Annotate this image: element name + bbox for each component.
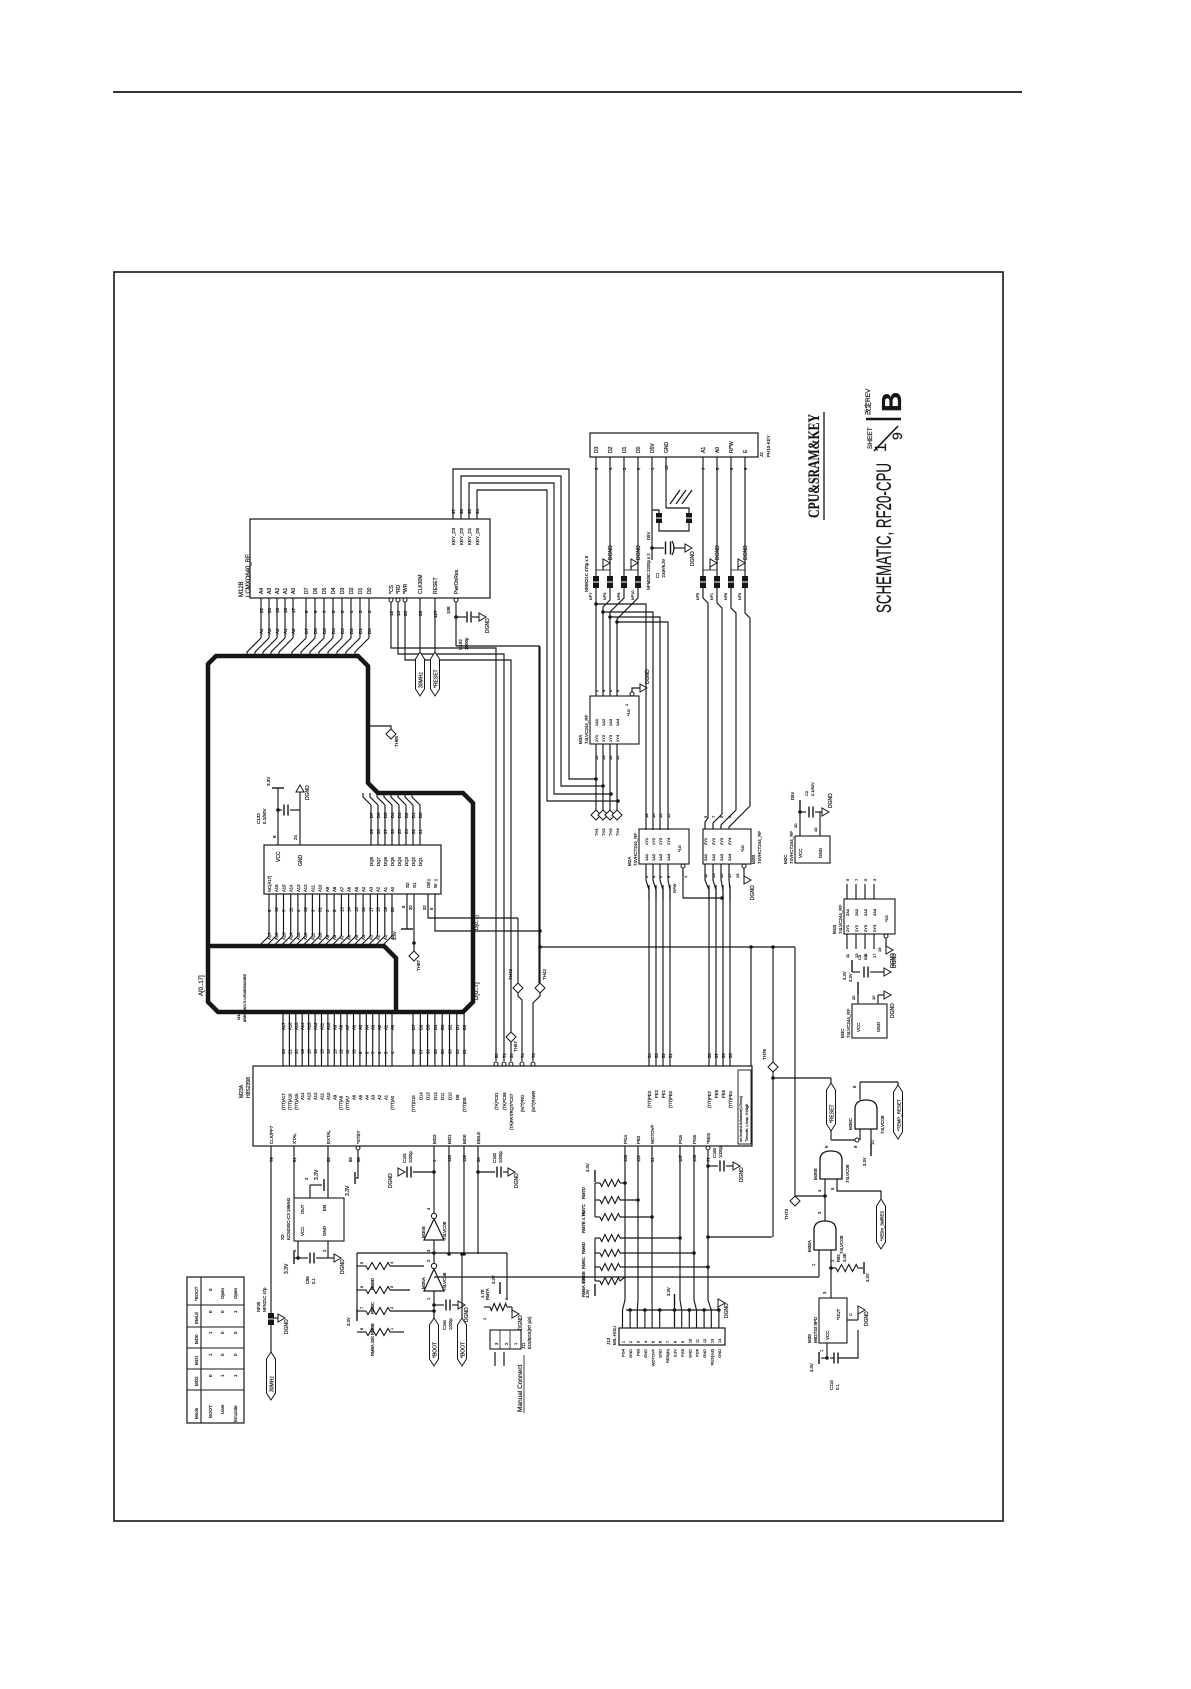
svg-text:DGND: DGND (514, 1173, 520, 1188)
svg-text:13: 13 (332, 1049, 337, 1054)
svg-text:A12: A12 (313, 1022, 318, 1030)
net flag XE5m_SelRES (877, 1199, 886, 1249)
svg-text:7: 7 (360, 1307, 364, 1309)
svg-text:CLK/PF7: CLK/PF7 (269, 1125, 274, 1144)
svg-text:M5M5V208AKV-70 / uPD44B000AGU8: M5M5V208AKV-70 / uPD44B000AGU8B55 (243, 974, 247, 1022)
svg-text:A13: A13 (296, 884, 301, 892)
svg-text:1A1: 1A1 (594, 718, 599, 726)
svg-text:19: 19 (877, 947, 882, 952)
svg-text:DGND: DGND (890, 953, 896, 968)
IC M2B 74VHCT244_RF (703, 829, 751, 864)
svg-text:14: 14 (326, 1049, 331, 1054)
svg-text:1: 1 (873, 443, 890, 452)
svg-text:A9: A9 (325, 886, 330, 892)
svg-text:D2: D2 (349, 628, 354, 634)
page top rule (113, 91, 1022, 93)
svg-text:14: 14 (658, 813, 663, 818)
svg-text:58: 58 (418, 610, 423, 616)
svg-text:A14: A14 (289, 932, 294, 940)
svg-text:11: 11 (345, 1049, 350, 1054)
svg-text:M36A: M36A (807, 1240, 812, 1252)
svg-text:3.3V: 3.3V (666, 1287, 671, 1296)
CPU chip-select pins (494, 1062, 498, 1066)
wires PG4 P83 WDTOVF PG5 PG6 RES down to J13 (623, 1146, 626, 1328)
svg-text:A4: A4 (361, 934, 366, 940)
svg-text:(T/T)PE3: (T/T)PE3 (647, 1090, 652, 1108)
svg-text:2Y1: 2Y1 (703, 837, 708, 845)
M36C inputs (830, 1131, 832, 1140)
svg-text:DGND: DGND (305, 785, 311, 800)
svg-text:27: 27 (383, 829, 388, 834)
svg-text:KC5030C-C3 19MHz: KC5030C-C3 19MHz (286, 1197, 291, 1240)
svg-text:20: 20 (294, 1049, 299, 1054)
svg-text:13: 13 (711, 1339, 715, 1343)
svg-text:D2: D2 (608, 446, 614, 453)
svg-text:KEY_D3: KEY_D3 (451, 527, 456, 545)
svg-text:TH85: TH85 (394, 735, 399, 747)
svg-text:D3: D3 (397, 812, 402, 818)
svg-text:6: 6 (360, 1286, 364, 1288)
svg-text:M62733 8PD: M62733 8PD (813, 1316, 818, 1343)
svg-text:A4: A4 (259, 628, 264, 634)
resistor pack right group NF5 NF1 NF6 NF3 (700, 576, 706, 588)
svg-text:M10: M10 (236, 1011, 241, 1020)
svg-text:PG5: PG5 (680, 1348, 685, 1357)
svg-text:A3: A3 (267, 588, 273, 594)
wire *WR to CPU CS7 via TH57 (405, 602, 511, 1032)
svg-text:20: 20 (851, 995, 856, 1000)
svg-text:A16: A16 (287, 1022, 292, 1030)
svg-text:D4: D4 (331, 628, 336, 634)
test point TH76 (771, 945, 775, 949)
svg-text:NP7: NP7 (589, 593, 593, 600)
svg-text:(TA)*CS1: (TA)*CS1 (494, 1092, 499, 1110)
svg-text:26: 26 (390, 829, 395, 834)
svg-text:(TA)*CS6: (TA)*CS6 (502, 1092, 507, 1110)
svg-text:TH87: TH87 (416, 959, 421, 971)
IC M12B LCMXO640_RF box (250, 519, 490, 598)
resistor array RM8D RM8C RM8B RM8A 33K (356, 1253, 358, 1311)
IC M38 M62733 reset supervisor (819, 1298, 847, 1343)
svg-text:(T/T)A0: (T/T)A0 (390, 1095, 395, 1110)
svg-text:EXTAL: EXTAL (326, 1130, 331, 1144)
svg-text:3.3V: 3.3V (848, 973, 853, 982)
J2 D5V filter NPM28C 2200p x2 (651, 457, 653, 548)
svg-text:0.1: 0.1 (311, 1278, 316, 1284)
svg-text:A0: A0 (390, 886, 395, 892)
svg-text:18: 18 (283, 607, 288, 613)
svg-text:A3: A3 (371, 1094, 376, 1100)
schematic sheet frame (114, 272, 1003, 1521)
svg-text:DGND: DGND (340, 1259, 346, 1274)
svg-text:0.1/50V: 0.1/50V (810, 782, 815, 796)
svg-text:A0: A0 (715, 447, 721, 453)
svg-text:Open: Open (220, 1287, 225, 1299)
J2 key wires down to M2B (703, 587, 708, 829)
svg-text:16: 16 (361, 907, 366, 912)
X2 bottom pins with C96 (297, 1241, 299, 1258)
svg-text:A13: A13 (307, 1022, 312, 1030)
svg-text:D5: D5 (426, 1024, 431, 1030)
svg-text:A15: A15 (294, 1022, 299, 1030)
svg-text:D14: D14 (418, 1092, 423, 1100)
svg-text:D4: D4 (390, 812, 395, 818)
svg-text:D1: D1 (622, 446, 628, 453)
svg-text:GND: GND (717, 1349, 722, 1358)
capacitor C184 1000p (432, 1303, 436, 1307)
svg-text:KEY_D1: KEY_D1 (467, 527, 472, 545)
svg-text:C182: C182 (492, 1152, 497, 1163)
svg-text:61: 61 (462, 1049, 467, 1054)
wire R/W to key bus (683, 870, 722, 898)
taps from J2 D nets to M2A inputs (594, 602, 598, 606)
svg-text:8: 8 (360, 1328, 364, 1330)
svg-text:RES(in): RES(in) (665, 1348, 670, 1363)
svg-text:1A3: 1A3 (608, 718, 613, 726)
svg-text:NF1: NF1 (710, 593, 714, 600)
svg-text:*RESET: *RESET (830, 1104, 836, 1123)
svg-text:DQ2: DQ2 (411, 857, 416, 866)
svg-text:PH10-KEY: PH10-KEY (766, 435, 771, 457)
svg-text:M38: M38 (807, 1334, 812, 1343)
svg-text:74LVC244_RF: 74LVC244_RF (838, 904, 843, 934)
svg-text:KEY_D0: KEY_D0 (475, 527, 480, 545)
M36B inputs (824, 1179, 826, 1196)
svg-text:DQ4: DQ4 (397, 857, 402, 866)
svg-text:J2: J2 (759, 452, 764, 457)
svg-text:DQ7: DQ7 (376, 857, 381, 866)
wires MD2 MD1 MD0 EMLE down (433, 1146, 435, 1213)
svg-text:(T/T)PE0: (T/T)PE0 (668, 1090, 673, 1108)
svg-text:BOOT: BOOT (208, 1405, 213, 1418)
svg-text:A5: A5 (354, 934, 359, 940)
svg-text:1Y2: 1Y2 (651, 837, 656, 845)
svg-text:*RESET: *RESET (434, 669, 440, 688)
svg-text:A12: A12 (313, 1092, 318, 1100)
svg-text:RM7A: RM7A (485, 1288, 490, 1300)
svg-text:DGND: DGND (284, 1319, 290, 1334)
svg-text:A10: A10 (326, 1092, 331, 1100)
wire TH76 to RESET flag (773, 1077, 831, 1079)
svg-text:A17: A17 (281, 1022, 286, 1030)
svg-text:A2: A2 (275, 628, 280, 634)
svg-text:NR5K21C 470p x 8: NR5K21C 470p x 8 (584, 555, 589, 592)
svg-text:RM6D: RM6D (581, 1242, 586, 1254)
svg-text:GND: GND (628, 1349, 633, 1358)
svg-text:C115: C115 (829, 1380, 834, 1390)
svg-text:Open: Open (233, 1287, 238, 1299)
svg-text:KEY_D2: KEY_D2 (459, 527, 464, 545)
svg-text:14: 14 (347, 907, 352, 912)
svg-text:DGND: DGND (690, 551, 696, 566)
svg-text:D6: D6 (376, 812, 381, 818)
svg-text:J11: J11 (521, 1342, 526, 1349)
M36A inputs (818, 1250, 820, 1277)
svg-text:16: 16 (651, 813, 656, 818)
wire RM6A to M36A pin1 (620, 1277, 625, 1281)
svg-text:21: 21 (418, 829, 423, 834)
svg-text:GND: GND (643, 1349, 648, 1358)
oscillator X2 KC5030C-C3 19MHz (294, 1198, 344, 1241)
svg-text:D0: D0 (418, 812, 423, 818)
svg-text:H8S2398: H8S2398 (246, 1077, 252, 1098)
svg-text:3.3V: 3.3V (673, 1349, 678, 1358)
svg-text:17: 17 (368, 907, 373, 912)
horizontal wire mode row (357, 1252, 507, 1254)
svg-text:R/*W: R/*W (672, 883, 677, 893)
svg-text:A10: A10 (318, 932, 323, 940)
svg-text:1A4: 1A4 (615, 718, 620, 726)
svg-text:A13: A13 (296, 932, 301, 940)
svg-text:D7: D7 (304, 587, 310, 594)
svg-text:18: 18 (644, 813, 649, 818)
svg-text:MD2: MD2 (194, 1376, 199, 1386)
capacitor C3 0.1 for M1B (851, 960, 853, 972)
svg-text:A11: A11 (310, 932, 315, 940)
svg-text:NP8: NP8 (617, 593, 621, 600)
test point TH85 near bus (368, 726, 391, 729)
resistor RM7A 4.7K (490, 1304, 507, 1311)
svg-text:DGND: DGND (739, 1167, 745, 1182)
svg-text:2A3: 2A3 (863, 908, 868, 916)
J13 3.3V pin8 (674, 1294, 676, 1306)
svg-text:*OUT: *OUT (836, 1308, 841, 1320)
svg-text:(T/T)PE4: (T/T)PE4 (728, 1090, 733, 1108)
svg-text:MD2: MD2 (432, 1134, 437, 1144)
svg-text:WDTOVF: WDTOVF (650, 1124, 655, 1144)
svg-text:*WR: *WR (403, 583, 409, 594)
svg-text:10: 10 (871, 995, 876, 1000)
svg-text:2A1: 2A1 (845, 908, 850, 916)
svg-text:(T/T)A8: (T/T)A8 (339, 1095, 344, 1110)
svg-text:C184: C184 (442, 1319, 447, 1330)
svg-text:D2: D2 (448, 1024, 453, 1030)
svg-text:A1: A1 (701, 447, 707, 453)
svg-text:PG6: PG6 (692, 1134, 697, 1144)
test point TH73 (794, 947, 796, 1196)
mode table (187, 1277, 244, 1423)
svg-text:1A1: 1A1 (644, 853, 649, 861)
svg-text:PG4: PG4 (623, 1134, 628, 1144)
svg-text:DGND: DGND (636, 545, 642, 560)
svg-text:A12: A12 (303, 884, 308, 892)
svg-text:DQ1: DQ1 (418, 857, 423, 866)
svg-text:2Y4: 2Y4 (872, 924, 877, 932)
svg-text:1: 1 (390, 1328, 394, 1330)
svg-text:8: 8 (674, 1341, 678, 1343)
M38 C pin to DGND (847, 1319, 858, 1321)
svg-text:D5: D5 (322, 628, 327, 634)
svg-text:16: 16 (313, 1049, 318, 1054)
wire XTAL stub (293, 1146, 295, 1198)
svg-text:A16: A16 (274, 884, 279, 892)
svg-text:71: 71 (502, 1053, 507, 1058)
test point TH57 (506, 1032, 516, 1042)
svg-text:A0: A0 (390, 1024, 395, 1030)
svg-text:PE6: PE6 (714, 1089, 719, 1098)
svg-text:*CS: *CS (389, 584, 395, 594)
svg-text:DGND: DGND (464, 1307, 470, 1322)
svg-text:A9: A9 (332, 1094, 337, 1100)
M2A 1G pin R/W (681, 864, 685, 868)
svg-text:5: 5 (651, 1341, 655, 1343)
wire to CPU top right (750, 947, 752, 1066)
svg-text:1Y1: 1Y1 (594, 734, 599, 742)
svg-text:E10/BOX(RT pin): E10/BOX(RT pin) (527, 1316, 532, 1349)
svg-text:A7: A7 (339, 934, 344, 940)
svg-text:1A3: 1A3 (658, 853, 663, 861)
svg-text:9: 9 (681, 1341, 685, 1343)
capacitor C133 0.1/50V (278, 809, 282, 811)
IC M1B 74LVC244_RF (844, 899, 895, 934)
svg-text:58: 58 (707, 1053, 712, 1058)
svg-text:9: 9 (889, 432, 905, 440)
wire down to RM7A region (506, 1253, 508, 1298)
svg-text:D4: D4 (433, 1024, 438, 1030)
svg-text:PE2: PE2 (654, 1089, 659, 1098)
capacitor C181 1000p (432, 1170, 436, 1174)
svg-text:C192: C192 (458, 639, 463, 650)
svg-text:20: 20 (267, 607, 272, 613)
svg-text:19: 19 (383, 907, 388, 912)
svg-text:0.1: 0.1 (835, 1384, 840, 1390)
svg-text:(T/T)A17: (T/T)A17 (281, 1093, 286, 1110)
svg-text:PwrOnRes: PwrOnRes (454, 569, 460, 594)
svg-text:CLK30M: CLK30M (418, 575, 424, 594)
capacitor C183 1000p on RES (706, 1164, 710, 1168)
svg-text:15: 15 (320, 1049, 325, 1054)
svg-text:5: 5 (360, 1262, 364, 1264)
svg-text:D2: D2 (404, 812, 409, 818)
svg-text:D1: D1 (455, 1024, 460, 1030)
svg-text:32: 32 (422, 905, 427, 910)
svg-text:(TA)PA7/RQ7/*CS7: (TA)PA7/RQ7/*CS7 (509, 1093, 514, 1130)
svg-text:A1: A1 (383, 886, 388, 892)
svg-text:74LVC08: 74LVC08 (880, 1115, 885, 1134)
svg-text:D9: D9 (455, 1094, 460, 1100)
svg-text:D3: D3 (340, 628, 345, 634)
svg-text:D5V: D5V (646, 532, 651, 540)
svg-text:D2: D2 (349, 587, 355, 594)
inverter M35B 74LVC08 (424, 1219, 444, 1240)
svg-text:A2: A2 (377, 1094, 382, 1100)
net flag 30MHz bottom (267, 1352, 276, 1400)
AND gate M36B 74LVC08 (820, 1151, 842, 1179)
svg-text:TH4: TH4 (615, 828, 620, 836)
svg-text:OUT: OUT (300, 1204, 305, 1214)
svg-text:19: 19 (275, 607, 280, 613)
svg-text:MD0: MD0 (194, 1334, 199, 1344)
svg-text:on board Advance(U3xxx): on board Advance(U3xxx) (738, 1095, 743, 1142)
wire HWR column lower (539, 646, 540, 983)
svg-text:VCC: VCC (798, 848, 803, 858)
svg-text:1A4: 1A4 (666, 853, 671, 861)
svg-text:30: 30 (509, 1053, 514, 1058)
svg-text:A14: A14 (300, 1092, 305, 1100)
svg-text:*2G: *2G (884, 915, 889, 922)
svg-text:A2: A2 (377, 1024, 382, 1030)
svg-text:28: 28 (376, 829, 381, 834)
svg-text:3: 3 (390, 1286, 394, 1288)
svg-text:25: 25 (397, 829, 402, 834)
svg-text:3.3V: 3.3V (266, 777, 271, 786)
svg-text:12: 12 (303, 907, 308, 912)
svg-text:A4: A4 (364, 1024, 369, 1030)
M36C output to TEMP_RESET flag (859, 1082, 861, 1100)
svg-text:M2C: M2C (783, 854, 788, 864)
svg-text:D7: D7 (411, 1024, 416, 1030)
revision separator (866, 418, 901, 421)
svg-text:22: 22 (259, 607, 264, 613)
svg-text:A13: A13 (307, 1092, 312, 1100)
svg-text:2: 2 (390, 1307, 394, 1309)
svg-text:1000p: 1000p (498, 1151, 503, 1163)
svg-text:DGND: DGND (724, 1303, 730, 1318)
M1B 2G to DGND (884, 934, 888, 938)
svg-text:*RD: *RD (396, 584, 402, 594)
svg-text:A6: A6 (347, 934, 352, 940)
svg-text:C2: C2 (804, 790, 809, 796)
svg-text:1Y3: 1Y3 (658, 837, 663, 845)
svg-text:1Y4: 1Y4 (666, 837, 671, 845)
svg-text:D5: D5 (383, 812, 388, 818)
svg-text:54: 54 (647, 1053, 652, 1058)
wire OE column to CPU RD (517, 918, 519, 983)
svg-text:2Y3: 2Y3 (719, 837, 724, 845)
resistor R92 3.3K (831, 1267, 836, 1269)
svg-text:A8: A8 (332, 934, 337, 940)
svg-text:PG6: PG6 (695, 1348, 700, 1357)
svg-text:74: 74 (520, 1053, 525, 1058)
J2 data wires to resistor packs (595, 457, 597, 576)
svg-text:17: 17 (291, 607, 296, 613)
svg-text:108: 108 (446, 606, 451, 614)
svg-text:2Y4: 2Y4 (727, 837, 732, 845)
svg-text:DGND: DGND (864, 1311, 870, 1326)
svg-text:MD0: MD0 (462, 1134, 467, 1144)
svg-text:D0: D0 (636, 446, 642, 453)
svg-text:DGND: DGND (608, 545, 614, 560)
wire *STBY to 3.3V (356, 1146, 360, 1150)
svg-text:D5V: D5V (790, 792, 795, 800)
svg-text:57: 57 (714, 1053, 719, 1058)
svg-text:MIL-HDLI: MIL-HDLI (612, 1326, 617, 1345)
svg-text:A11: A11 (320, 1022, 325, 1030)
svg-text:19: 19 (300, 1049, 305, 1054)
svg-text:C133: C133 (256, 813, 261, 824)
svg-text:A1: A1 (283, 628, 288, 634)
svg-text:A3: A3 (368, 886, 373, 892)
svg-text:NPM28C 2200p x 2: NPM28C 2200p x 2 (646, 553, 651, 590)
svg-text:4.7K: 4.7K (480, 1289, 485, 1298)
svg-text:3.3V: 3.3V (585, 1163, 590, 1172)
svg-text:C1: C1 (655, 572, 660, 578)
DGND taps left group (602, 566, 604, 570)
svg-text:D6: D6 (418, 1024, 423, 1030)
svg-text:3.3V: 3.3V (346, 1317, 351, 1326)
svg-text:1A2: 1A2 (651, 853, 656, 861)
svg-text:P83: P83 (636, 1348, 641, 1356)
svg-text:DQ3: DQ3 (404, 857, 409, 866)
svg-text:2A4: 2A4 (872, 908, 877, 916)
svg-text:Manual Connect: Manual Connect (517, 1364, 524, 1412)
svg-text:DGND: DGND (485, 618, 491, 633)
svg-text:A6: A6 (347, 886, 352, 892)
svg-text:GND: GND (658, 1349, 663, 1358)
capacitor C192 1000p (456, 616, 466, 618)
svg-text:A3: A3 (267, 628, 272, 634)
IC M10 SRAM box (264, 845, 441, 894)
